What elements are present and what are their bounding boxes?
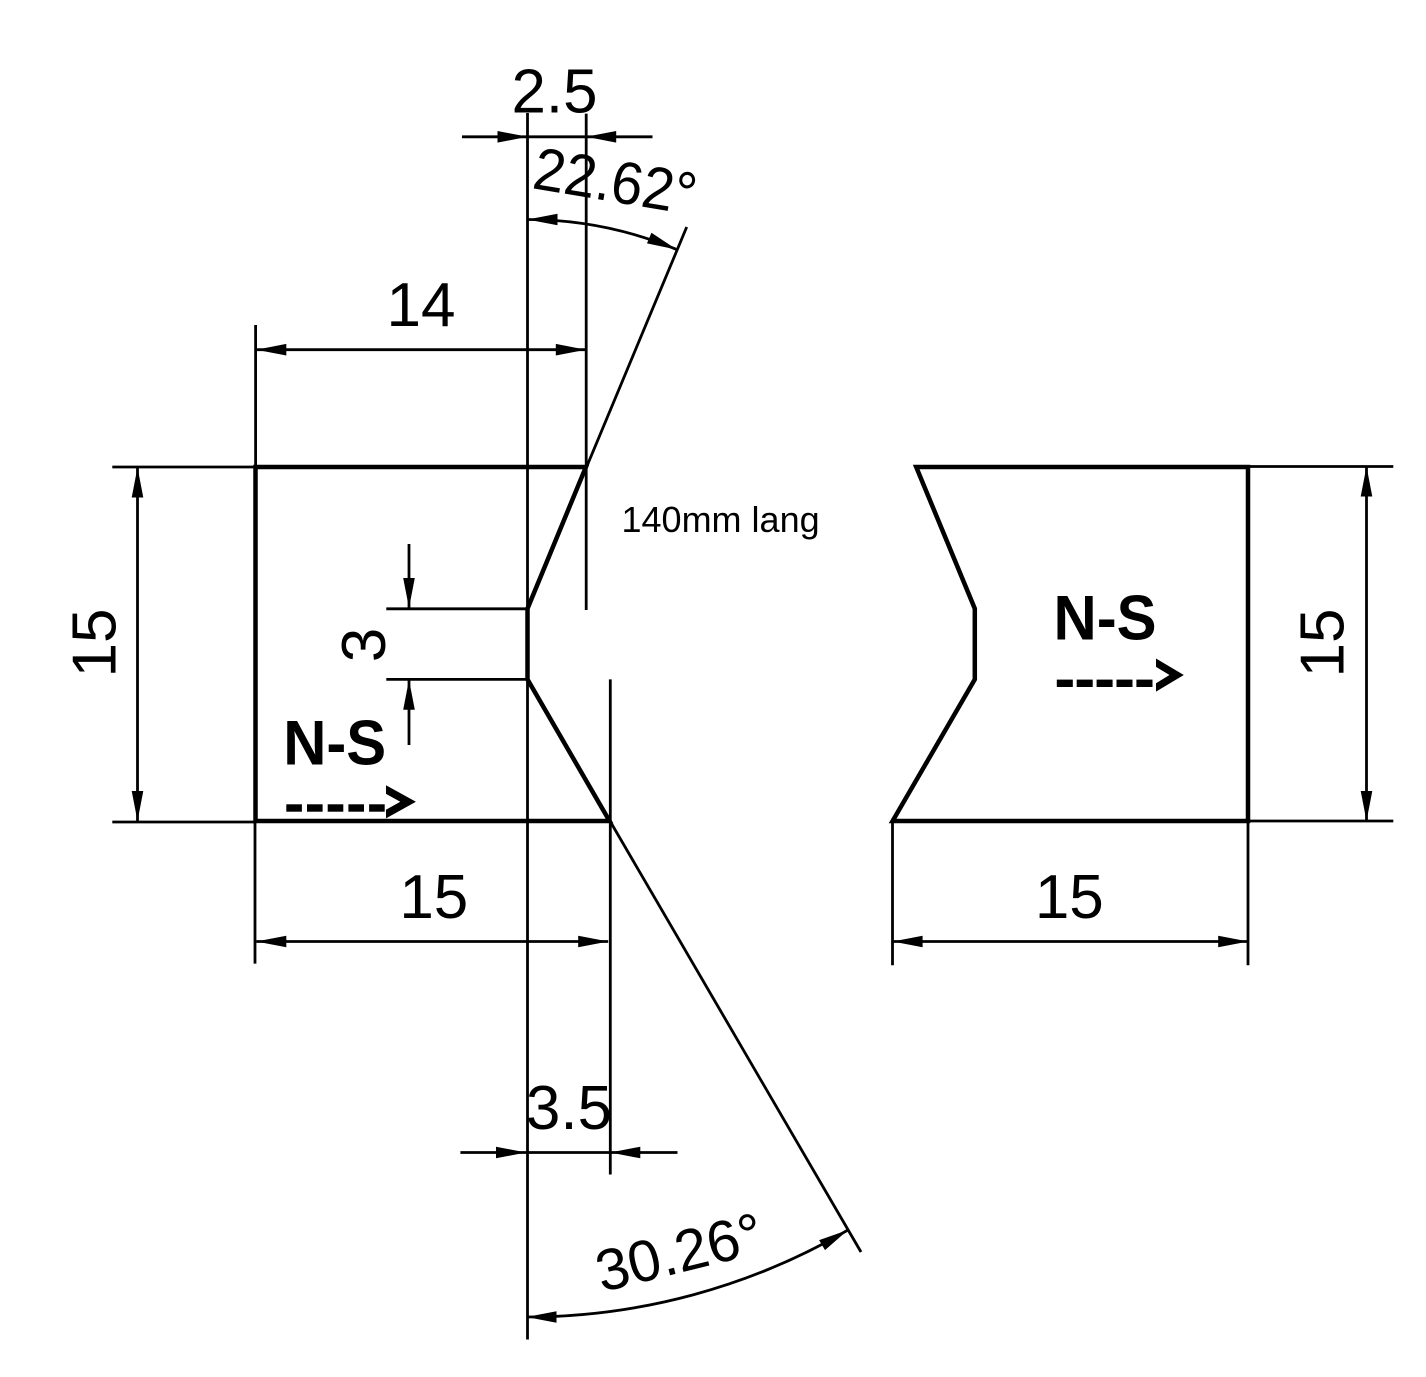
svg-text:N-S: N-S [1054, 583, 1157, 653]
svg-text:14: 14 [387, 271, 456, 340]
svg-text:3.5: 3.5 [526, 1074, 612, 1143]
svg-text:15: 15 [399, 863, 468, 932]
svg-text:140mm lang: 140mm lang [622, 499, 820, 540]
svg-text:30.26°: 30.26° [589, 1201, 769, 1305]
svg-text:3: 3 [330, 628, 399, 662]
svg-text:22.62°: 22.62° [529, 135, 702, 228]
svg-text:2.5: 2.5 [512, 58, 598, 127]
svg-text:15: 15 [1035, 863, 1104, 932]
svg-text:15: 15 [61, 609, 130, 678]
svg-text:N-S: N-S [283, 709, 386, 779]
svg-text:15: 15 [1289, 609, 1358, 678]
